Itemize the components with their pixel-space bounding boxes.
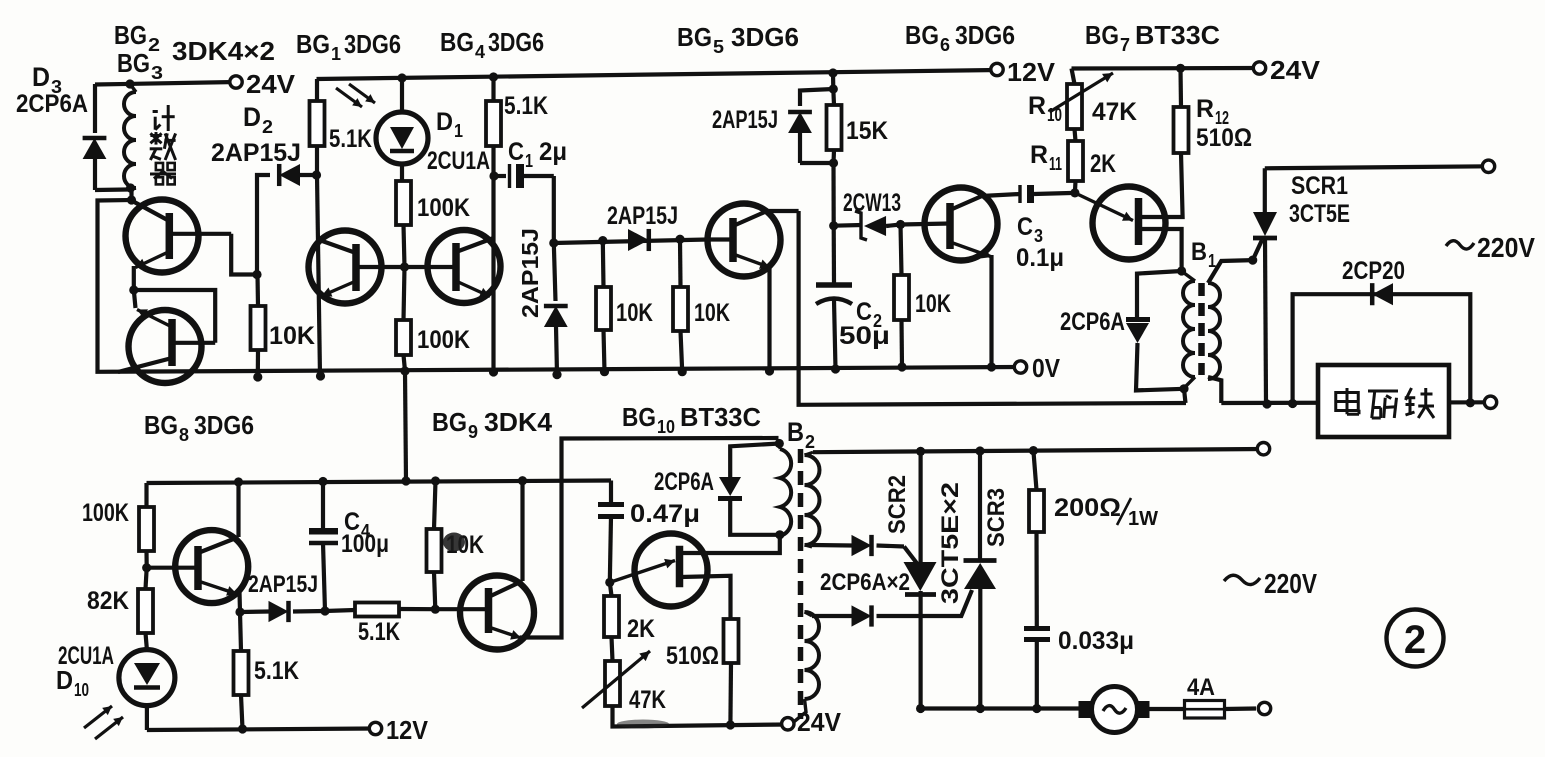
svg-text:3CT5E: 3CT5E — [1289, 200, 1350, 228]
svg-text:24V: 24V — [797, 707, 842, 737]
svg-text:2μ: 2μ — [539, 138, 567, 166]
svg-text:12V: 12V — [1007, 57, 1056, 87]
svg-text:10K: 10K — [616, 299, 653, 327]
svg-text:82K: 82K — [87, 587, 129, 615]
svg-text:BG: BG — [440, 27, 474, 57]
svg-text:2CP6A: 2CP6A — [654, 468, 714, 496]
svg-text:100K: 100K — [417, 194, 470, 222]
svg-text:3DG6: 3DG6 — [955, 20, 1015, 50]
svg-text:1: 1 — [331, 44, 341, 64]
svg-text:3CT5E×2: 3CT5E×2 — [937, 482, 964, 604]
svg-text:BG: BG — [622, 402, 656, 432]
svg-text:2: 2 — [1404, 618, 1426, 662]
svg-text:100K: 100K — [417, 326, 470, 354]
svg-text:5.1K: 5.1K — [358, 618, 400, 646]
svg-text:B: B — [1191, 238, 1207, 266]
svg-text:1: 1 — [454, 121, 463, 141]
svg-text:5.1K: 5.1K — [504, 92, 548, 120]
svg-text:200Ω: 200Ω — [1054, 494, 1121, 522]
svg-text:1: 1 — [525, 151, 533, 171]
svg-text:10K: 10K — [694, 299, 730, 327]
svg-text:10: 10 — [74, 680, 89, 700]
svg-text:11: 11 — [1049, 154, 1062, 174]
svg-text:510Ω: 510Ω — [666, 642, 719, 670]
svg-text:2: 2 — [262, 117, 273, 137]
svg-text:5.1K: 5.1K — [254, 657, 299, 685]
svg-text:B: B — [787, 417, 804, 447]
svg-text:10K: 10K — [915, 290, 951, 318]
svg-text:5.1K: 5.1K — [329, 125, 372, 153]
svg-text:12V: 12V — [386, 715, 429, 745]
svg-text:3DK4: 3DK4 — [484, 407, 553, 437]
svg-text:2AP15J: 2AP15J — [517, 228, 543, 318]
svg-text:9: 9 — [468, 422, 478, 442]
svg-text:3DG6: 3DG6 — [731, 22, 799, 52]
svg-text:7: 7 — [1120, 35, 1130, 55]
svg-text:2: 2 — [805, 432, 815, 452]
svg-text:2AP15J: 2AP15J — [607, 202, 678, 230]
svg-text:3: 3 — [1034, 226, 1043, 246]
svg-text:BG: BG — [905, 20, 939, 50]
svg-text:510Ω: 510Ω — [1196, 124, 1252, 152]
svg-text:BG: BG — [296, 29, 330, 59]
svg-text:3DG6: 3DG6 — [344, 29, 401, 59]
svg-text:0.033μ: 0.033μ — [1058, 627, 1134, 655]
svg-text:2AP15J: 2AP15J — [712, 106, 778, 134]
svg-text:C: C — [508, 138, 524, 166]
svg-text:4: 4 — [475, 42, 485, 62]
svg-text:15K: 15K — [846, 117, 888, 145]
svg-text:BG: BG — [1085, 20, 1119, 50]
svg-text:50μ: 50μ — [839, 322, 890, 350]
svg-text:24V: 24V — [1270, 55, 1321, 85]
svg-text:2AP15J: 2AP15J — [248, 571, 318, 598]
svg-text:0V: 0V — [1032, 353, 1061, 383]
svg-text:220V: 220V — [1264, 568, 1317, 599]
svg-text:0.1μ: 0.1μ — [1016, 244, 1064, 272]
svg-text:2CP6A: 2CP6A — [16, 90, 88, 118]
svg-text:4A: 4A — [1187, 674, 1215, 701]
svg-text:C: C — [1017, 213, 1033, 241]
svg-text:2K: 2K — [627, 615, 655, 643]
svg-text:2AP15J: 2AP15J — [211, 139, 301, 167]
svg-text:2CW13: 2CW13 — [843, 189, 901, 217]
svg-text:3DG6: 3DG6 — [194, 410, 254, 440]
svg-text:1W: 1W — [1128, 508, 1158, 530]
svg-text:D: D — [32, 62, 50, 92]
svg-text:47K: 47K — [629, 686, 666, 714]
svg-text:BG: BG — [144, 410, 178, 440]
svg-text:R: R — [1196, 95, 1214, 123]
svg-text:BG: BG — [117, 48, 150, 78]
svg-text:0.47μ: 0.47μ — [630, 500, 700, 528]
svg-text:2CP6A: 2CP6A — [1060, 308, 1125, 336]
svg-text:2CU1A: 2CU1A — [427, 147, 490, 175]
svg-text:5: 5 — [713, 37, 724, 57]
svg-text:D: D — [56, 665, 73, 695]
svg-text:220V: 220V — [1477, 232, 1535, 263]
svg-text:10: 10 — [657, 417, 675, 437]
svg-text:6: 6 — [940, 35, 950, 55]
svg-text:BG: BG — [677, 22, 712, 52]
svg-text:R: R — [1030, 141, 1048, 169]
svg-text:100K: 100K — [82, 499, 129, 527]
svg-text:BT33C: BT33C — [680, 402, 761, 432]
svg-text:47K: 47K — [1092, 98, 1137, 126]
svg-text:D: D — [436, 108, 453, 136]
svg-text:2CP6A×2: 2CP6A×2 — [820, 569, 910, 596]
svg-text:2K: 2K — [1090, 150, 1116, 178]
svg-text:BT33C: BT33C — [1135, 20, 1220, 50]
svg-text:SCR1: SCR1 — [1291, 172, 1348, 200]
svg-text:R: R — [1028, 92, 1046, 120]
svg-text:SCR3: SCR3 — [983, 488, 1010, 547]
svg-text:8: 8 — [179, 425, 189, 445]
svg-text:SCR2: SCR2 — [884, 475, 911, 534]
svg-text:24V: 24V — [246, 69, 296, 99]
svg-text:BG: BG — [114, 20, 147, 50]
svg-text:10: 10 — [1047, 105, 1062, 125]
svg-text:3DG6: 3DG6 — [488, 27, 544, 57]
svg-text:D: D — [243, 102, 261, 132]
svg-text:BG: BG — [432, 407, 467, 437]
svg-text:10K: 10K — [269, 322, 315, 350]
svg-text:100μ: 100μ — [341, 530, 389, 558]
svg-text:3: 3 — [151, 63, 163, 83]
svg-text:2CP20: 2CP20 — [1342, 257, 1405, 285]
svg-text:3DK4×2: 3DK4×2 — [172, 36, 275, 66]
